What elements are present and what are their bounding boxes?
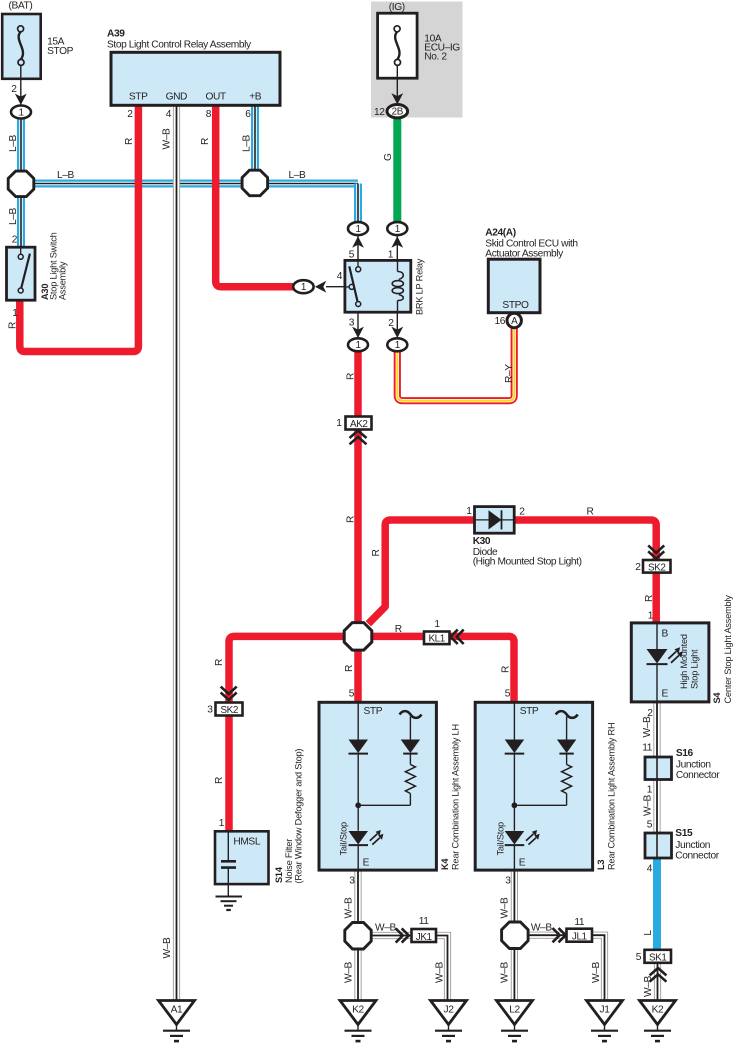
wire W-B L3 octagon to ground L2	[511, 949, 518, 1002]
svg-text:L3: L3	[596, 860, 606, 870]
chevrons down above SK2 left	[221, 687, 237, 700]
svg-text:SK2: SK2	[648, 562, 665, 573]
wire W-B S4 to S16	[653, 702, 660, 757]
svg-text:16: 16	[494, 316, 505, 327]
svg-text:S15: S15	[675, 828, 693, 839]
wire R junction right to KL1 and L3	[372, 633, 425, 641]
svg-text:(Rear Window Defogger and Stop: (Rear Window Defogger and Stop)	[294, 749, 304, 884]
svg-text:5: 5	[647, 820, 653, 831]
arrow down into pin3 oval	[352, 327, 364, 338]
junction connector box S15	[645, 833, 672, 858]
svg-text:1: 1	[336, 418, 342, 429]
svg-text:R: R	[214, 777, 225, 784]
svg-text:STP: STP	[129, 91, 148, 102]
svg-text:1: 1	[219, 818, 225, 829]
svg-text:(BAT): (BAT)	[9, 1, 33, 12]
svg-text:R: R	[395, 624, 402, 635]
connector box JK1	[412, 929, 437, 942]
svg-text:5: 5	[349, 689, 355, 700]
K30 diode box	[475, 507, 515, 534]
svg-text:L–B: L–B	[242, 134, 253, 152]
svg-text:5: 5	[505, 689, 511, 700]
arrow into 2B oval	[391, 93, 403, 104]
svg-text:1: 1	[648, 610, 654, 621]
svg-text:11: 11	[419, 916, 430, 927]
wire W-B SK1 to ground K2 right	[654, 963, 661, 1001]
junction octagon K4 ground	[345, 923, 371, 950]
A30 Stop Light Switch Assembly box	[7, 247, 36, 300]
svg-text:Rear Combination Light Assembl: Rear Combination Light Assembly RH	[607, 723, 617, 870]
svg-text:L–B: L–B	[8, 134, 19, 152]
svg-text:W–B: W–B	[643, 795, 654, 816]
svg-text:R: R	[371, 550, 382, 557]
chevrons left after KL1	[451, 630, 464, 644]
wire L blue S15 to SK1	[653, 858, 661, 950]
svg-text:R–Y: R–Y	[504, 364, 515, 383]
K4 Rear Combination Light LH box	[319, 702, 436, 870]
junction connector box S16	[645, 757, 672, 780]
svg-text:J2: J2	[444, 1004, 455, 1015]
svg-text:11: 11	[642, 742, 653, 753]
wire R-Y relay pin2 to STPO	[397, 325, 514, 401]
svg-text:STP: STP	[364, 706, 383, 717]
junction octagon L3 ground	[502, 922, 528, 949]
svg-text:R: R	[346, 373, 357, 380]
IG gray panel	[371, 2, 463, 118]
svg-text:HMSL: HMSL	[233, 836, 260, 847]
svg-text:2: 2	[635, 562, 641, 573]
wire R junction down to K4	[354, 650, 362, 703]
arrow up into pin5 oval	[352, 236, 364, 247]
arrow left into pin4 oval	[315, 281, 326, 293]
wire W-B L3 pin3 to octagon	[511, 870, 518, 922]
svg-text:2: 2	[11, 84, 17, 95]
svg-text:Junction: Junction	[676, 760, 711, 771]
svg-text:5: 5	[636, 952, 642, 963]
wire R junction left to SK2 left	[229, 636, 345, 702]
connector circle A STPO	[507, 313, 521, 327]
ground K2 (right column)	[640, 1001, 676, 1042]
svg-text:R: R	[124, 138, 135, 145]
svg-text:12: 12	[374, 107, 385, 118]
svg-text:W–B: W–B	[344, 962, 355, 983]
svg-text:STP: STP	[520, 706, 539, 717]
wire R AK2 to junction	[354, 430, 362, 624]
svg-text:R: R	[501, 666, 512, 673]
relay pin5 stub	[357, 234, 359, 261]
svg-text:1: 1	[466, 506, 472, 517]
chevrons right before JK1	[396, 928, 409, 942]
svg-text:3: 3	[349, 318, 355, 329]
svg-text:GND: GND	[166, 91, 187, 102]
svg-text:4: 4	[166, 109, 172, 120]
svg-text:A1: A1	[171, 1004, 183, 1015]
svg-text:L2: L2	[509, 1004, 520, 1015]
svg-text:R: R	[344, 665, 355, 672]
svg-text:(IG): (IG)	[389, 2, 405, 13]
connector oval relay pin5	[348, 222, 368, 235]
svg-text:3: 3	[207, 705, 213, 716]
svg-text:A24(A): A24(A)	[485, 228, 515, 239]
svg-text:R: R	[214, 659, 225, 666]
A39 Stop Light Control Relay Assembly box	[111, 52, 280, 105]
wire R relay pin3 to AK2	[354, 348, 362, 417]
svg-text:R: R	[644, 595, 655, 602]
svg-text:W–B: W–B	[162, 937, 173, 958]
connector oval relay pin3	[348, 338, 368, 351]
connector oval 2B	[387, 105, 408, 118]
connector oval relay pin1	[387, 222, 407, 235]
svg-text:R: R	[8, 322, 19, 329]
svg-text:W–B: W–B	[643, 976, 654, 997]
svg-text:JL1: JL1	[572, 932, 588, 943]
ground L2	[497, 1001, 533, 1042]
svg-text:L: L	[643, 930, 654, 936]
wire L-B corner down to relay pin5 oval	[354, 184, 362, 230]
wire W-B K4 pin3 to octagon	[354, 870, 361, 922]
svg-text:W–B: W–B	[500, 897, 511, 918]
wire G green IG to relay pin1	[393, 118, 401, 229]
wire R A30 to STP	[20, 105, 139, 351]
svg-text:1: 1	[12, 308, 18, 319]
chevrons up below AK2	[350, 431, 367, 445]
svg-text:L–B: L–B	[57, 170, 75, 181]
svg-text:B: B	[662, 629, 669, 640]
svg-text:2: 2	[127, 109, 133, 120]
svg-text:3: 3	[349, 875, 355, 886]
svg-text:Stop Light: Stop Light	[690, 649, 700, 689]
svg-text:S14: S14	[274, 866, 284, 883]
svg-text:W–B: W–B	[375, 923, 396, 934]
svg-text:4: 4	[647, 864, 653, 875]
svg-text:8: 8	[206, 109, 212, 120]
svg-text:Tail/Stop: Tail/Stop	[339, 822, 349, 856]
S4 Center Stop Light box	[631, 623, 709, 702]
ground J2	[431, 1001, 467, 1042]
connector oval 1 below BAT fuse	[11, 106, 31, 119]
junction octagon main red	[344, 623, 372, 651]
arrow down into pin2 oval	[391, 327, 403, 338]
svg-text:2B: 2B	[392, 107, 404, 118]
ground under S14	[216, 896, 243, 898]
svg-text:W–B: W–B	[500, 962, 511, 983]
connector oval relay pin4	[293, 280, 313, 293]
svg-text:Center Stop Light Assembly: Center Stop Light Assembly	[723, 595, 733, 704]
svg-text:R: R	[587, 507, 594, 518]
svg-text:J1: J1	[600, 1004, 611, 1015]
L3 Rear Combination Light RH box	[475, 702, 592, 870]
svg-text:R: R	[346, 516, 357, 523]
wire W-B L3 octagon to JL1	[528, 932, 566, 939]
wire L-B +B down	[251, 105, 259, 184]
svg-text:+B: +B	[249, 91, 262, 102]
wire W-B JL1 to ground J1	[593, 935, 605, 1001]
svg-text:KL1: KL1	[429, 634, 446, 645]
svg-text:BRK LP Relay: BRK LP Relay	[415, 258, 425, 315]
svg-text:Assembly: Assembly	[58, 261, 68, 300]
junction octagon top-left	[8, 171, 34, 197]
svg-text:L–B: L–B	[8, 207, 19, 225]
junction octagon below +B	[242, 170, 268, 196]
ground A1	[159, 1001, 195, 1042]
svg-text:2: 2	[519, 507, 525, 518]
svg-text:K2: K2	[352, 1004, 364, 1015]
wire R diode to SK2 right	[514, 520, 656, 561]
chevrons down above SK2 right	[648, 545, 664, 558]
wire R diode branch	[368, 520, 475, 624]
connector box SK2 right	[643, 560, 671, 573]
ground K2 (under K4)	[340, 1001, 376, 1042]
svg-text:W–B: W–B	[642, 716, 653, 737]
fuse 15A STOP (BAT)	[2, 14, 41, 106]
svg-text:SK1: SK1	[649, 952, 667, 963]
svg-text:11: 11	[574, 917, 585, 928]
svg-text:Stop Light Control Relay Assem: Stop Light Control Relay Assembly	[107, 40, 252, 51]
svg-text:E: E	[662, 688, 669, 699]
svg-text:OUT: OUT	[205, 91, 225, 102]
svg-text:L–B: L–B	[289, 170, 307, 181]
connector box SK2 left	[216, 703, 243, 716]
connector box SK1	[645, 950, 672, 963]
svg-text:2: 2	[12, 235, 18, 246]
svg-text:JK1: JK1	[416, 932, 433, 943]
svg-text:1: 1	[395, 224, 401, 235]
wire W-B S16 to S15	[653, 779, 660, 833]
svg-text:3: 3	[505, 875, 511, 886]
connector box KL1	[424, 632, 450, 645]
svg-text:No. 2: No. 2	[424, 51, 447, 62]
svg-text:S16: S16	[676, 748, 694, 759]
svg-text:Connector: Connector	[675, 850, 719, 861]
wire R OUT to relay pin4 oval	[216, 105, 296, 286]
connector box JL1	[567, 929, 593, 942]
svg-text:AK2: AK2	[350, 419, 367, 430]
svg-text:W–B: W–B	[162, 128, 173, 149]
svg-text:1: 1	[434, 619, 440, 630]
svg-text:W–B: W–B	[435, 962, 446, 983]
wire L-B fuse to octagon	[17, 112, 25, 171]
wire R SK2 to S4	[652, 572, 660, 624]
svg-text:E: E	[363, 858, 370, 869]
svg-text:(High Mounted Stop Light): (High Mounted Stop Light)	[473, 557, 582, 568]
connector oval relay pin2	[387, 338, 407, 351]
svg-text:A: A	[511, 316, 518, 327]
svg-text:W–B: W–B	[591, 962, 602, 983]
svg-text:STPO: STPO	[502, 300, 529, 311]
svg-text:G: G	[383, 153, 394, 161]
relay pin2 stub	[396, 312, 398, 340]
wire W-B K4 octagon to JK1	[372, 932, 412, 939]
arrow up into pin1 oval	[391, 236, 403, 247]
relay pin1 stub	[396, 234, 398, 261]
svg-text:Rear Combination Light Assembl: Rear Combination Light Assembly LH	[451, 724, 461, 870]
svg-text:Noise Filter: Noise Filter	[284, 839, 294, 883]
ground J1	[587, 1001, 623, 1042]
arrow into BAT oval	[15, 94, 27, 105]
S14 HMSL noise filter box	[215, 831, 269, 910]
svg-text:SK2: SK2	[220, 705, 237, 716]
wire W-B K4 octagon to ground K2	[354, 949, 361, 1001]
svg-text:STOP: STOP	[47, 46, 74, 57]
svg-text:4: 4	[337, 271, 343, 282]
wire L-B horizontal main	[21, 180, 358, 188]
connector box AK2	[346, 417, 372, 430]
svg-text:E: E	[519, 858, 526, 869]
svg-text:5: 5	[349, 250, 355, 261]
relay pin3 stub	[357, 312, 359, 340]
wire W-B JK1 to ground J2	[436, 936, 448, 1002]
svg-text:A39: A39	[107, 29, 125, 40]
svg-text:K2: K2	[652, 1004, 664, 1015]
svg-text:K4: K4	[440, 858, 450, 870]
svg-text:1: 1	[647, 785, 653, 796]
svg-text:1: 1	[388, 250, 394, 261]
relay pin4 stub wire	[326, 286, 345, 288]
BRK LP Relay box	[345, 260, 411, 312]
svg-text:Actuator Assembly: Actuator Assembly	[485, 249, 564, 260]
svg-text:W–B: W–B	[344, 897, 355, 918]
svg-text:6: 6	[245, 109, 251, 120]
wire L-B octagon to A30	[17, 184, 25, 248]
svg-text:High Mounted: High Mounted	[679, 634, 689, 689]
svg-text:K30: K30	[473, 536, 491, 547]
wire W-B GND A39 to ground A1	[173, 105, 180, 1001]
wire R SK2 left to HMSL	[225, 715, 233, 832]
svg-text:Connector: Connector	[676, 770, 720, 781]
chevrons up below SK1	[650, 968, 667, 982]
svg-text:Tail/Stop: Tail/Stop	[496, 822, 506, 856]
svg-text:R: R	[200, 138, 211, 145]
fuse 10A ECU-IG (IG)	[378, 13, 418, 105]
chevrons right before JL1	[553, 928, 566, 942]
svg-text:S4: S4	[712, 692, 722, 704]
svg-text:2: 2	[388, 318, 394, 329]
svg-text:1: 1	[395, 340, 401, 351]
A24(A) Skid Control ECU box	[488, 259, 540, 313]
svg-text:W–B: W–B	[531, 922, 552, 933]
